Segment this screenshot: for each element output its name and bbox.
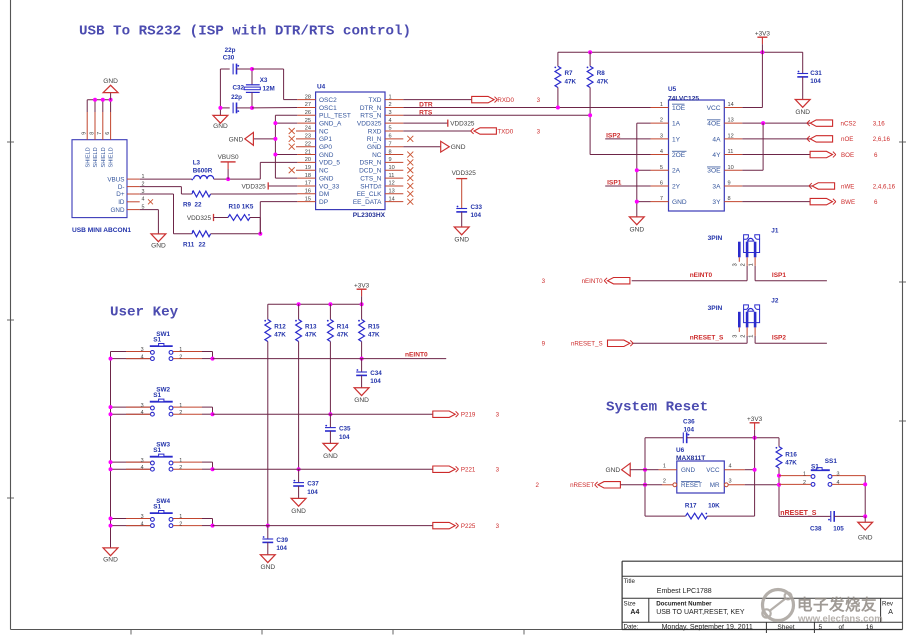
svg-text:Monday, September 19, 2011: Monday, September 19, 2011 [662,624,753,631]
svg-text:22: 22 [195,201,203,208]
svg-text:NC: NC [319,168,329,175]
svg-text:TXD0: TXD0 [497,128,513,135]
svg-text:26: 26 [305,110,311,116]
svg-text:22: 22 [305,141,311,147]
svg-text:1: 1 [663,463,666,469]
svg-text:3: 3 [141,458,144,464]
svg-text:GND: GND [795,109,810,116]
svg-text:SS1: SS1 [825,458,838,465]
svg-text:RXD0: RXD0 [497,97,514,104]
svg-text:S1: S1 [811,464,819,471]
svg-text:2: 2 [179,354,182,360]
svg-text:U5: U5 [668,86,677,93]
svg-text:2: 2 [536,482,540,489]
svg-text:DCD_N: DCD_N [359,168,382,175]
svg-text:GND: GND [151,243,166,250]
svg-text:2OE: 2OE [672,152,686,159]
svg-text:ISP2: ISP2 [772,335,786,342]
svg-text:GND: GND [629,227,644,234]
svg-text:SHTD#: SHTD# [360,183,382,190]
svg-text:Size: Size [624,601,637,608]
svg-text:ISP1: ISP1 [607,180,622,187]
svg-text:1: 1 [803,471,806,477]
svg-text:J1: J1 [771,228,779,235]
svg-text:2: 2 [660,118,663,124]
svg-text:GND: GND [319,175,334,182]
svg-text:3Y: 3Y [712,199,721,206]
svg-text:3: 3 [537,128,541,135]
svg-text:6: 6 [105,132,111,135]
svg-text:3PIN: 3PIN [708,235,723,242]
svg-text:5: 5 [819,624,823,631]
svg-text:24: 24 [305,126,311,132]
svg-text:22p: 22p [231,94,242,101]
svg-text:C34: C34 [370,370,382,377]
svg-text:25: 25 [305,118,311,124]
svg-text:S1: S1 [153,504,161,511]
svg-text:2Y: 2Y [672,183,681,190]
svg-text:VDD325: VDD325 [187,215,212,222]
svg-text:nWE: nWE [841,183,854,190]
svg-text:D+: D+ [116,191,125,198]
svg-text:USB To RS232 (ISP with DTR/RTS: USB To RS232 (ISP with DTR/RTS control) [79,24,411,40]
svg-text:3OE: 3OE [707,168,721,175]
svg-text:PLL_TEST: PLL_TEST [319,113,351,120]
svg-text:4: 4 [660,149,663,155]
svg-text:3: 3 [389,110,392,116]
svg-text:8: 8 [89,132,95,135]
svg-text:VCC: VCC [707,105,721,112]
svg-text:6: 6 [660,180,663,186]
svg-text:R13: R13 [305,323,317,330]
svg-text:3: 3 [496,467,500,474]
svg-text:EE_CLK: EE_CLK [357,191,383,198]
svg-text:Rev: Rev [882,601,894,608]
svg-text:10: 10 [728,165,734,171]
svg-text:Embest LPC1788: Embest LPC1788 [657,588,712,595]
svg-text:2: 2 [179,410,182,416]
svg-text:C31: C31 [810,70,822,77]
svg-text:ISP2: ISP2 [606,133,621,140]
svg-text:3: 3 [496,412,500,419]
svg-text:12M: 12M [263,85,275,92]
svg-text:User Key: User Key [110,305,179,321]
svg-text:nEINT0: nEINT0 [690,272,713,279]
svg-text:23: 23 [305,134,311,140]
svg-text:14: 14 [389,196,395,202]
svg-text:GND: GND [672,199,687,206]
svg-text:S1: S1 [153,392,161,399]
svg-text:VDD325: VDD325 [357,120,382,127]
svg-text:nEINT0: nEINT0 [582,278,604,285]
svg-text:nRESET_S: nRESET_S [571,341,603,348]
svg-text:2,6,16: 2,6,16 [873,136,891,143]
svg-text:47K: 47K [274,332,286,339]
svg-text:105: 105 [833,526,844,533]
svg-text:12: 12 [728,133,734,139]
svg-text:R12: R12 [274,323,286,330]
svg-text:GND: GND [111,207,125,214]
svg-text:U6: U6 [676,447,685,454]
svg-text:SHIELD: SHIELD [101,147,107,167]
svg-text:47K: 47K [305,332,317,339]
svg-text:9: 9 [728,180,731,186]
svg-text:GND: GND [229,136,244,143]
svg-text:P219: P219 [461,412,476,419]
svg-text:R9: R9 [183,201,192,208]
svg-text:GP1: GP1 [319,136,332,143]
svg-text:1: 1 [179,403,182,409]
svg-text:TXD: TXD [369,97,382,104]
svg-text:18: 18 [305,173,311,179]
svg-text:VCC: VCC [706,467,720,474]
svg-text:15: 15 [305,196,311,202]
svg-text:X3: X3 [260,77,268,84]
svg-text:104: 104 [471,212,482,219]
svg-text:VDD325: VDD325 [452,170,477,177]
svg-text:3: 3 [141,514,144,520]
svg-text:RESET: RESET [681,482,702,489]
svg-text:BWE: BWE [841,199,855,206]
svg-text:C36: C36 [683,418,695,425]
svg-text:3: 3 [733,335,739,338]
svg-text:47K: 47K [597,79,609,86]
svg-text:17: 17 [305,181,311,187]
svg-text:2: 2 [803,480,806,486]
svg-text:www.elecfans.com: www.elecfans.com [797,614,883,625]
svg-text:1: 1 [179,347,182,353]
svg-text:3: 3 [141,403,144,409]
svg-text:GND: GND [319,152,334,159]
svg-text:27: 27 [305,102,311,108]
svg-text:4A: 4A [712,136,721,143]
svg-text:Title: Title [624,578,636,585]
svg-text:4: 4 [141,410,144,416]
svg-text:GND: GND [858,535,873,542]
svg-text:4: 4 [142,197,145,203]
svg-text:9: 9 [389,157,392,163]
svg-text:3: 3 [537,97,541,104]
svg-text:1: 1 [179,514,182,520]
svg-text:13: 13 [389,189,395,195]
svg-text:1: 1 [660,102,663,108]
svg-text:R15: R15 [368,323,380,330]
svg-text:1A: 1A [672,121,681,128]
svg-text:+3V3: +3V3 [354,283,370,290]
svg-text:CTS_N: CTS_N [360,175,382,182]
svg-text:GND: GND [681,467,695,474]
svg-text:6: 6 [874,152,878,159]
svg-text:2A: 2A [672,168,681,175]
svg-text:16: 16 [305,189,311,195]
svg-text:USB TO UART,RESET, KEY: USB TO UART,RESET, KEY [656,609,745,616]
svg-text:3: 3 [660,133,663,139]
svg-text:4OE: 4OE [707,121,721,128]
svg-text:1: 1 [389,94,392,100]
svg-text:5: 5 [660,165,663,171]
svg-text:VDD325: VDD325 [242,183,267,190]
svg-text:2: 2 [741,335,747,338]
svg-text:C38: C38 [810,526,822,533]
svg-text:1: 1 [179,458,182,464]
svg-text:1OE: 1OE [672,105,686,112]
svg-text:1Y: 1Y [672,136,681,143]
svg-text:13: 13 [728,118,734,124]
svg-text:RI_N: RI_N [367,136,382,143]
svg-text:电子发烧友: 电子发烧友 [797,595,877,614]
svg-text:GP0: GP0 [319,144,332,151]
svg-text:9: 9 [542,341,546,348]
svg-text:ID: ID [118,199,125,206]
svg-text:L3: L3 [193,160,201,167]
svg-text:nOE: nOE [841,136,853,143]
svg-text:ISP1: ISP1 [772,272,786,279]
svg-text:SHIELD: SHIELD [109,147,115,167]
svg-text:12: 12 [389,181,395,187]
svg-text:C30: C30 [223,55,235,62]
svg-text:DM: DM [319,191,329,198]
svg-text:VDD325: VDD325 [450,120,475,127]
svg-text:47K: 47K [337,332,349,339]
svg-text:NC: NC [372,152,382,159]
svg-text:104: 104 [339,434,350,441]
svg-text:7: 7 [660,196,663,202]
svg-text:NC: NC [319,128,329,135]
svg-text:28: 28 [305,94,311,100]
svg-text:10: 10 [389,165,395,171]
svg-text:GND: GND [354,397,369,404]
svg-text:1: 1 [749,263,755,266]
svg-text:4: 4 [837,480,840,486]
svg-text:Date:: Date: [624,624,639,631]
svg-text:GND: GND [260,564,275,571]
svg-text:3PIN: 3PIN [708,305,723,312]
svg-text:SHIELD: SHIELD [93,147,99,167]
svg-text:DSR_N: DSR_N [359,160,381,167]
svg-text:MR: MR [710,482,720,489]
svg-text:P225: P225 [461,523,476,530]
svg-text:22: 22 [199,241,207,248]
svg-text:nEINT0: nEINT0 [405,351,428,358]
svg-text:GND: GND [605,467,620,474]
svg-text:2: 2 [663,479,666,485]
svg-text:2: 2 [179,465,182,471]
svg-text:GND: GND [103,557,118,564]
svg-text:R16: R16 [785,452,797,459]
svg-text:8: 8 [728,196,731,202]
svg-text:7: 7 [97,132,103,135]
svg-text:OSC2: OSC2 [319,97,337,104]
svg-text:3A: 3A [712,183,721,190]
svg-text:GND: GND [367,144,382,151]
svg-text:VBUS0: VBUS0 [218,154,239,161]
svg-text:J2: J2 [771,298,779,305]
svg-text:20: 20 [305,157,311,163]
svg-text:VDD_5: VDD_5 [319,160,340,167]
svg-text:104: 104 [684,427,695,434]
svg-text:A4: A4 [630,609,639,616]
svg-text:OSC1: OSC1 [319,105,337,112]
svg-text:DTR_N: DTR_N [360,105,382,112]
svg-text:5: 5 [389,126,392,132]
svg-text:of: of [839,624,845,631]
svg-text:47K: 47K [565,79,577,86]
svg-text:GND: GND [213,123,228,130]
svg-text:9: 9 [82,132,88,135]
svg-text:R14: R14 [337,323,349,330]
svg-text:1: 1 [749,335,755,338]
svg-text:GND_A: GND_A [319,120,342,127]
svg-text:nRESET: nRESET [570,482,594,489]
svg-text:+3V3: +3V3 [755,31,771,38]
svg-text:2,4,6,16: 2,4,6,16 [873,183,896,190]
svg-text:MAX811T: MAX811T [676,455,705,462]
svg-text:2: 2 [741,263,747,266]
svg-text:B600R: B600R [193,168,213,175]
svg-text:P221: P221 [461,467,476,474]
svg-text:6: 6 [389,134,392,140]
svg-text:21: 21 [305,149,311,155]
svg-text:PL2303HX: PL2303HX [353,212,386,219]
svg-text:Document Number: Document Number [656,601,712,608]
svg-text:GND: GND [103,78,118,85]
svg-text:3: 3 [496,523,500,530]
svg-text:RTS: RTS [419,110,433,117]
svg-text:7: 7 [389,141,392,147]
svg-text:GND: GND [454,237,469,244]
svg-text:Sheet: Sheet [777,624,794,631]
svg-text:104: 104 [276,545,287,552]
svg-text:19: 19 [305,165,311,171]
svg-text:DTR: DTR [419,101,433,108]
svg-text:104: 104 [307,489,318,496]
svg-text:C32: C32 [232,85,244,92]
svg-text:C33: C33 [471,204,483,211]
svg-text:RXD: RXD [368,128,382,135]
svg-text:nRESET_S: nRESET_S [780,510,817,517]
svg-text:C35: C35 [339,426,351,433]
svg-text:R8: R8 [597,70,606,77]
svg-text:C37: C37 [307,481,319,488]
svg-text:GND: GND [451,144,466,151]
svg-text:3: 3 [542,278,546,285]
svg-text:BOE: BOE [841,152,854,159]
svg-text:nCS2: nCS2 [841,120,857,127]
svg-text:C39: C39 [276,537,288,544]
svg-text:+3V3: +3V3 [747,416,763,423]
svg-text:3: 3 [729,479,732,485]
svg-text:R7: R7 [565,70,574,77]
svg-text:4: 4 [729,463,732,469]
svg-text:S1: S1 [153,447,161,454]
svg-text:SHIELD: SHIELD [85,147,91,167]
svg-text:RTS_N: RTS_N [360,113,381,120]
svg-text:16: 16 [866,624,874,631]
svg-text:R10 1K5: R10 1K5 [229,203,254,210]
svg-text:USB MINI ABCON1: USB MINI ABCON1 [72,227,131,234]
svg-text:4: 4 [141,465,144,471]
svg-text:104: 104 [810,78,821,85]
svg-text:4: 4 [141,521,144,527]
svg-text:VO_33: VO_33 [319,183,340,190]
svg-text:R11: R11 [183,241,195,248]
svg-text:3: 3 [837,471,840,477]
svg-text:EE_DATA: EE_DATA [353,199,382,206]
svg-text:11: 11 [728,149,734,155]
svg-text:47K: 47K [785,459,797,466]
svg-text:4Y: 4Y [712,152,721,159]
svg-text:10K: 10K [708,502,720,509]
svg-text:3: 3 [141,347,144,353]
svg-text:nRESET_S: nRESET_S [690,335,724,342]
svg-text:GND: GND [323,453,338,460]
svg-text:R17: R17 [685,502,697,509]
svg-text:22p: 22p [225,47,236,54]
svg-text:14: 14 [728,102,734,108]
svg-text:VBUS: VBUS [107,176,124,183]
svg-text:4: 4 [389,118,392,124]
svg-text:3,16: 3,16 [873,120,886,127]
svg-text:3: 3 [733,263,739,266]
svg-text:4: 4 [141,354,144,360]
svg-text:2: 2 [389,102,392,108]
svg-text:D-: D- [118,184,125,191]
svg-text:GND: GND [291,508,306,515]
svg-text:System Reset: System Reset [606,400,708,416]
svg-text:S1: S1 [153,337,161,344]
svg-text:DP: DP [319,199,328,206]
svg-text:8: 8 [389,149,392,155]
svg-text:A: A [888,609,893,616]
svg-text:47K: 47K [368,332,380,339]
svg-text:104: 104 [370,378,381,385]
svg-text:2: 2 [179,521,182,527]
svg-text:6: 6 [874,199,878,206]
svg-text:74LVC125: 74LVC125 [668,95,699,102]
svg-text:11: 11 [389,173,395,179]
svg-text:U4: U4 [317,84,326,91]
